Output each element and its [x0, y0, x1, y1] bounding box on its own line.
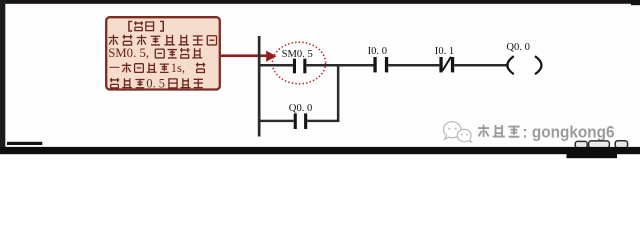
arrow from annotation box to SM0.5 contact: [221, 51, 277, 62]
wire: I0.1 to coil Q0.0: [454, 64, 509, 67]
contact I0.0 (NO): [373, 57, 388, 72]
wire: branch horizontal (junction side): [307, 120, 339, 122]
watermark text weixinhao: [478, 125, 520, 137]
svg-text:Q0. 0: Q0. 0: [506, 42, 530, 53]
left border bar: [0, 0, 5, 154]
NC slash of I0.1: [443, 57, 452, 71]
svg-text:SM0. 5: SM0. 5: [282, 49, 313, 60]
svg-text:1s,: 1s,: [171, 61, 185, 75]
taskbar button 2: [589, 141, 610, 148]
svg-text:Q0. 0: Q0. 0: [289, 103, 313, 114]
wire: rail to SM0.5 contact: [258, 64, 293, 67]
svg-text:I0. 0: I0. 0: [368, 46, 387, 57]
contact SM0.5 (NO): [293, 59, 307, 74]
wire: branch junction vertical: [337, 65, 340, 121]
bottom main bar: [0, 147, 640, 154]
annotation box (callout): [106, 17, 220, 89]
annotation text line 2 (special flag relay): [109, 35, 217, 45]
contact Q0.0 (NO, seal-in branch): [294, 113, 308, 129]
coil Q0.0 (output): [507, 56, 541, 74]
wire: SM0.5 to I0.0 (with branch junction): [306, 64, 373, 67]
wire: branch horizontal (rail side): [258, 120, 294, 122]
contact I0.1 (NC): [439, 57, 454, 72]
bottom-right block under bar: [567, 153, 618, 158]
annotation text line 1 [shuoming]: [129, 21, 163, 31]
top border line: [0, 0, 640, 4]
watermark wechat icon: [444, 122, 472, 143]
svg-text:0. 5: 0. 5: [146, 76, 165, 90]
bottom small rectangle (left): [7, 142, 42, 145]
svg-text:SM0. 5,: SM0. 5,: [108, 46, 149, 60]
dotted highlight ellipse around SM0.5: [272, 42, 325, 84]
wire: I0.0 to I0.1: [388, 64, 439, 67]
taskbar button 1: [575, 141, 587, 147]
svg-text:I0. 1: I0. 1: [435, 46, 454, 57]
svg-text:: gongkong6: : gongkong6: [523, 123, 615, 141]
annotation text line 5 (duty cycle 0.5 clock): [110, 78, 145, 88]
left power rail: [258, 36, 261, 137]
taskbar button 3: [615, 141, 627, 148]
annotation text line 4 (one period is 1s): [110, 63, 169, 73]
